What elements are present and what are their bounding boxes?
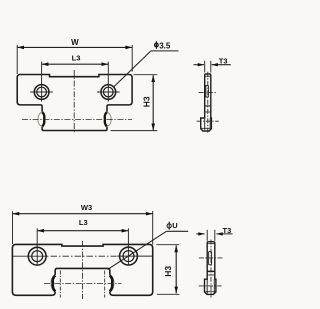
svg-text:W3: W3 — [81, 203, 92, 212]
svg-text:3.5: 3.5 — [159, 42, 171, 51]
svg-text:T3: T3 — [219, 57, 228, 66]
svg-text:H3: H3 — [163, 266, 173, 277]
svg-text:U: U — [172, 221, 177, 230]
svg-text:W: W — [71, 38, 79, 47]
svg-text:L3: L3 — [72, 53, 81, 62]
svg-text:H3: H3 — [141, 96, 151, 107]
svg-text:L3: L3 — [79, 218, 88, 227]
svg-text:T3: T3 — [223, 226, 232, 235]
